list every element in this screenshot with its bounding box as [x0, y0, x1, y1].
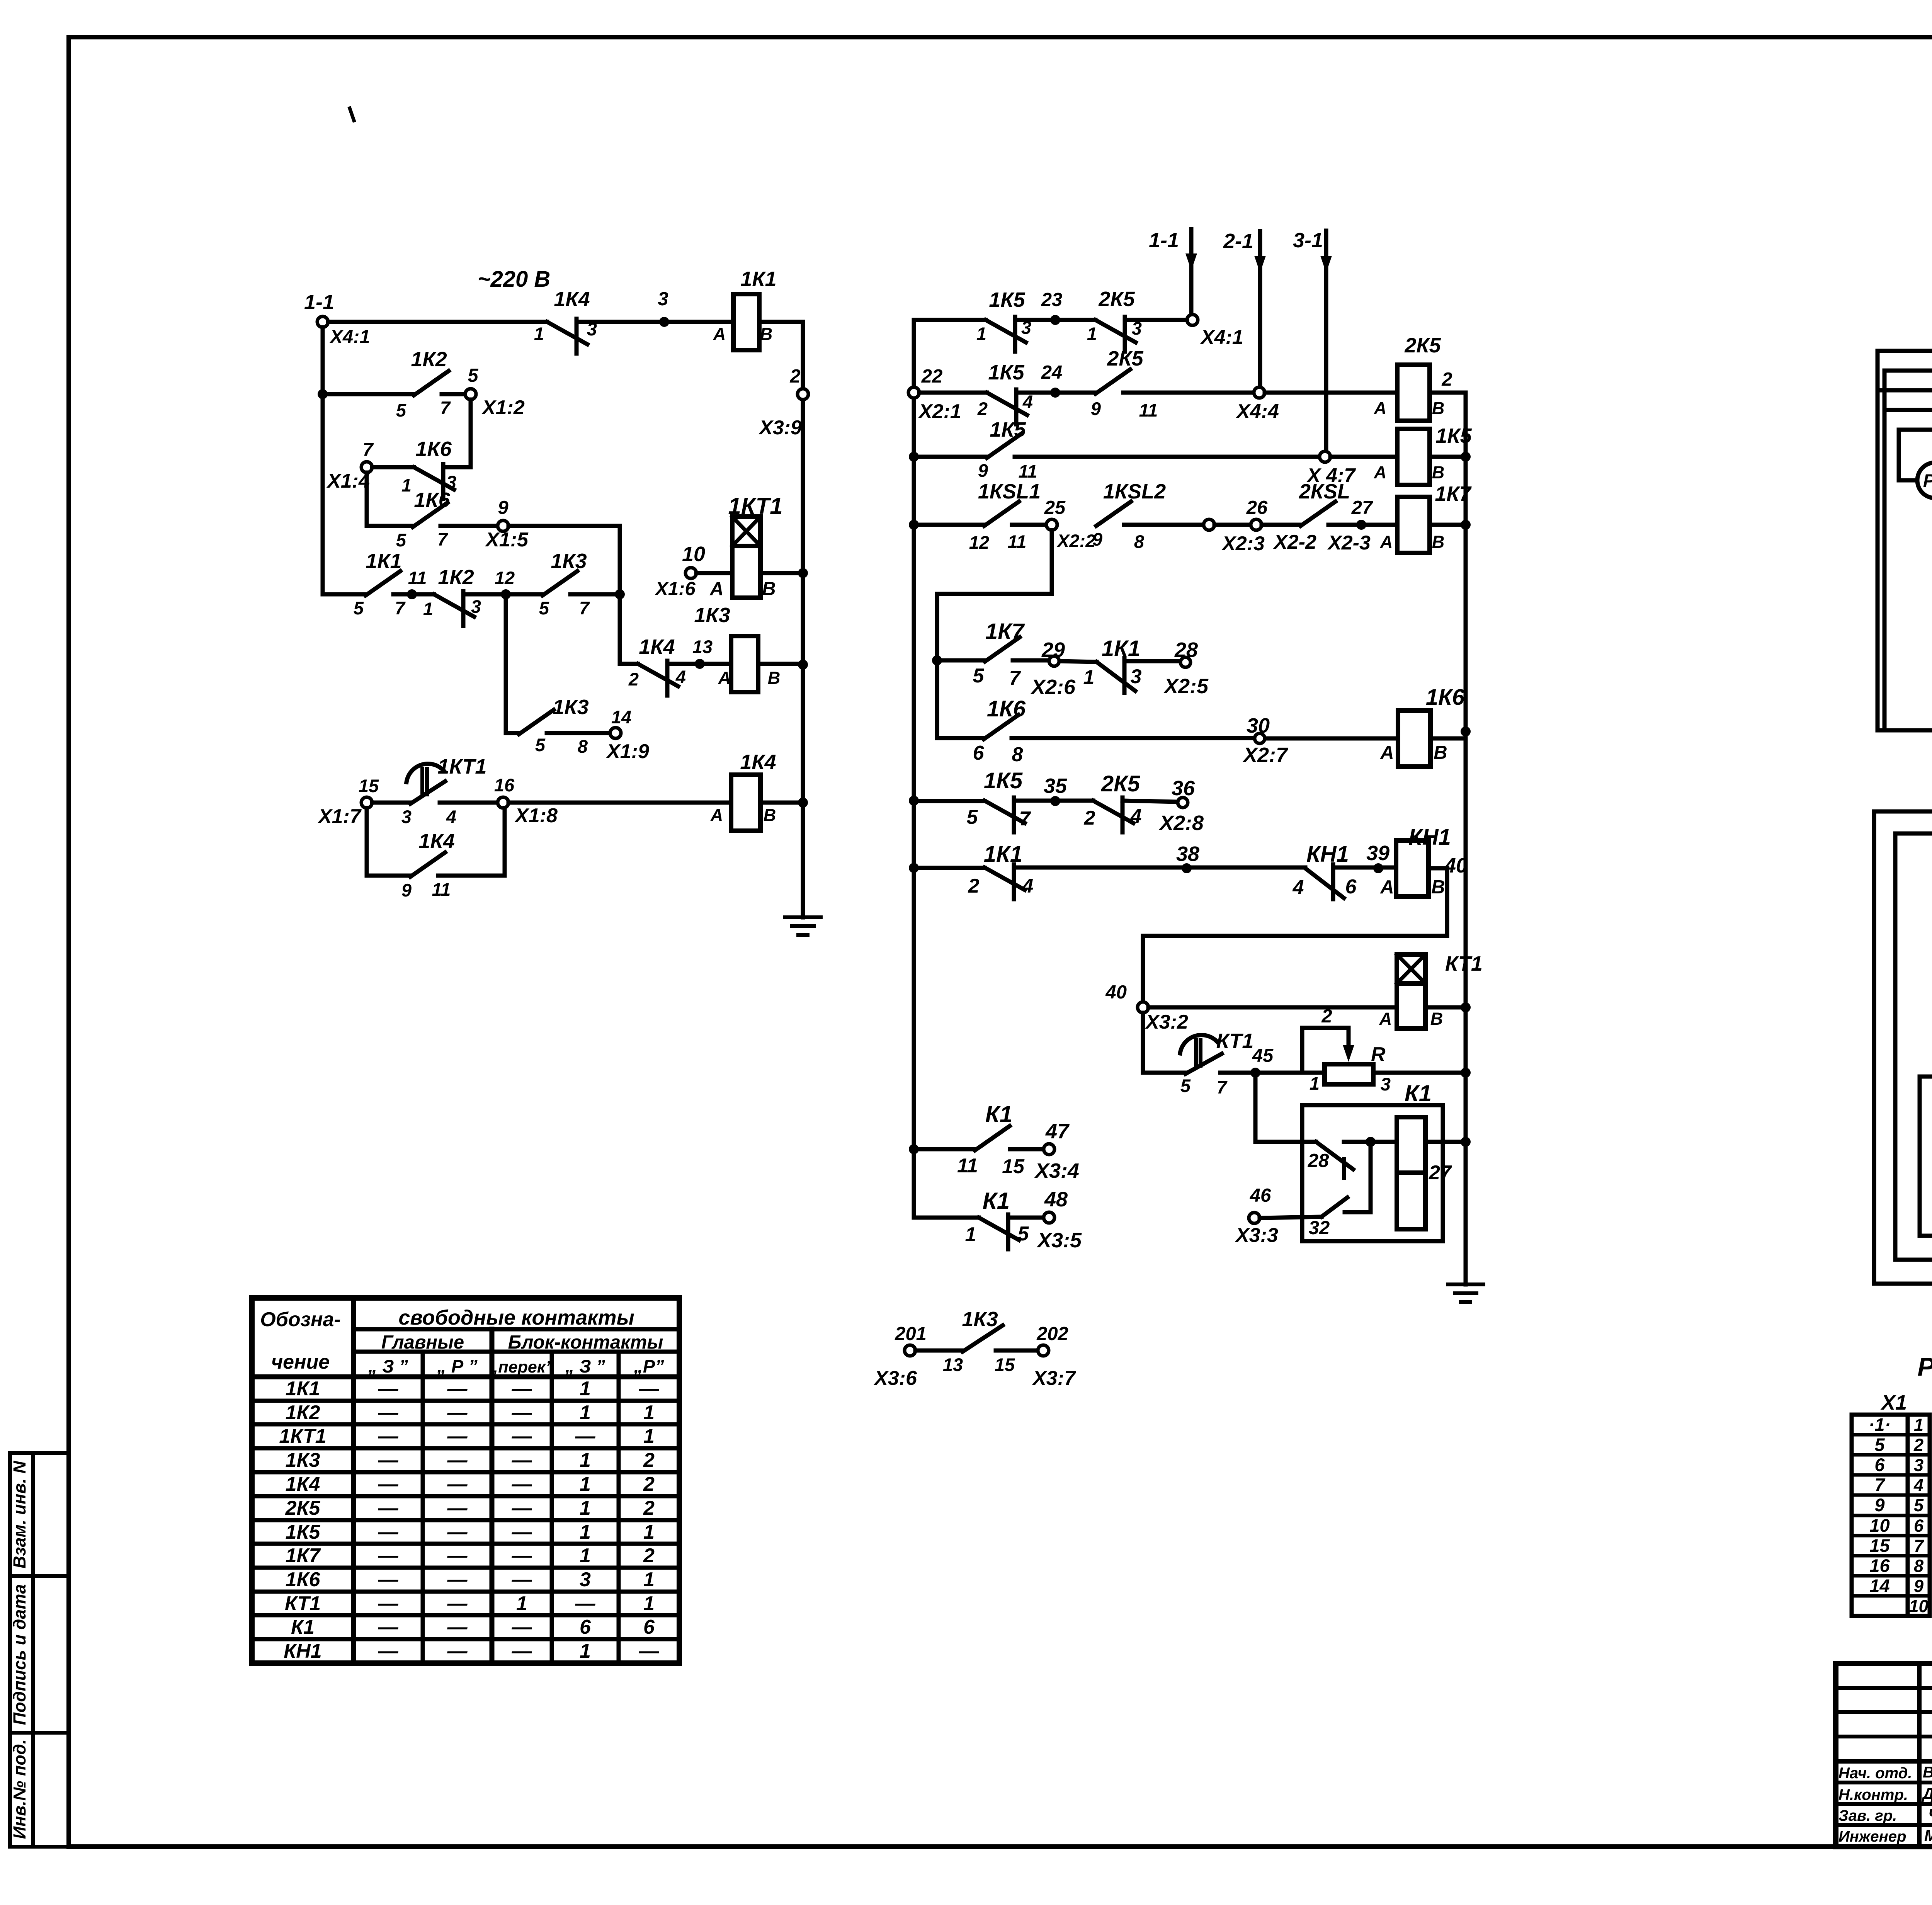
wire X1:5 to row5 corner	[509, 526, 620, 594]
svg-text:6: 6	[1874, 1454, 1885, 1475]
svg-text:Взам. инв. N: Взам. инв. N	[10, 1460, 29, 1568]
svg-text:А: А	[1380, 532, 1393, 552]
wire coil 1K5 to right bus	[1430, 455, 1466, 459]
svg-text:1: 1	[1087, 323, 1097, 344]
svg-text:1: 1	[643, 1521, 655, 1543]
svg-text:2-1: 2-1	[1223, 230, 1253, 253]
contact K1 pin 32	[1260, 1197, 1347, 1238]
svg-text:Инженер: Инженер	[1838, 1828, 1906, 1845]
contact K1 pins 1-5	[965, 1188, 1029, 1249]
svg-text:1К6: 1К6	[987, 696, 1026, 721]
svg-text:38: 38	[1176, 842, 1199, 866]
svg-text:7: 7	[1874, 1475, 1885, 1495]
ground left ladder	[785, 917, 821, 935]
svg-text:X4:4: X4:4	[1235, 400, 1279, 423]
contact 1K6 pins 5-7	[396, 488, 451, 550]
svg-text:28: 28	[1308, 1150, 1329, 1171]
svg-text:—: —	[447, 1592, 468, 1615]
svg-text:В: В	[1430, 1009, 1443, 1029]
svg-text:202: 202	[1036, 1323, 1068, 1344]
svg-text:X2:3: X2:3	[1221, 532, 1265, 555]
svg-text:—: —	[447, 1402, 468, 1424]
terminal X1:9 node 14	[605, 707, 649, 763]
wire row2 left	[323, 392, 414, 396]
svg-text:1: 1	[976, 323, 986, 344]
svg-text:11: 11	[1008, 531, 1027, 552]
wire to node 13	[667, 636, 731, 669]
svg-text:1К5: 1К5	[286, 1521, 321, 1543]
svg-text:14: 14	[1869, 1575, 1889, 1596]
wire node 12 down to row 1K3 5-8	[506, 600, 519, 733]
svg-text:4: 4	[446, 806, 456, 827]
svg-text:К1: К1	[985, 1101, 1012, 1127]
svg-text:X1:4: X1:4	[326, 470, 370, 492]
svg-text:2: 2	[643, 1497, 655, 1519]
stray pen mark	[350, 108, 354, 121]
svg-text:X2-2: X2-2	[1273, 531, 1316, 553]
svg-text:„перек”: „перек”	[490, 1358, 554, 1376]
svg-text:1К6: 1К6	[415, 437, 452, 461]
svg-text:7: 7	[437, 529, 448, 549]
svg-text:1К5: 1К5	[989, 288, 1025, 311]
svg-text:X3:6: X3:6	[873, 1367, 917, 1390]
svg-text:6: 6	[580, 1616, 591, 1638]
svg-text:1К5: 1К5	[1435, 424, 1472, 447]
svg-text:5: 5	[967, 806, 978, 828]
svg-text:X3:2: X3:2	[1145, 1011, 1188, 1033]
svg-text:1К3: 1К3	[286, 1449, 320, 1471]
svg-text:Обозна-: Обозна-	[260, 1308, 341, 1331]
svg-text:1КSL2: 1КSL2	[1103, 480, 1166, 503]
wire X1:8 to coil 1K4	[509, 801, 731, 805]
svg-text:1К3: 1К3	[553, 696, 588, 719]
svg-text:6: 6	[643, 1616, 655, 1638]
terminal X3:7 node 202	[1032, 1323, 1076, 1390]
svg-text:10: 10	[1869, 1515, 1889, 1536]
svg-text:X2:2: X2:2	[1056, 531, 1095, 551]
svg-text:8: 8	[1012, 743, 1023, 766]
right bus of middle ladder	[1461, 393, 1471, 1284]
wire row5 right	[570, 589, 625, 664]
node 12	[463, 568, 543, 599]
coil KT1 time relay	[1379, 952, 1483, 1029]
svg-text:2К5: 2К5	[285, 1497, 321, 1519]
svg-text:8: 8	[1134, 531, 1145, 552]
svg-text:22: 22	[921, 366, 943, 387]
svg-text:36: 36	[1172, 777, 1195, 800]
svg-text:X1:5: X1:5	[485, 529, 529, 551]
contact 1K2 pins 5-7	[396, 348, 451, 420]
svg-text:Инв.№ под.: Инв.№ под.	[10, 1739, 29, 1839]
svg-text:—: —	[378, 1402, 399, 1424]
svg-text:3: 3	[1131, 665, 1142, 688]
svg-text:Блок-контакты: Блок-контакты	[508, 1332, 663, 1353]
contact 1K1 pins 5-7	[323, 549, 406, 618]
svg-text:5: 5	[539, 598, 549, 618]
svg-text:—: —	[378, 1473, 399, 1495]
contact 1K3 pins 5-7	[539, 549, 590, 618]
wire row3 middle	[914, 455, 987, 459]
svg-text:1К7: 1К7	[286, 1544, 321, 1567]
terminal X3:9 node 2	[758, 366, 808, 439]
svg-text:КТ1: КТ1	[1216, 1029, 1254, 1053]
svg-text:16: 16	[494, 775, 515, 795]
svg-text:3: 3	[580, 1568, 591, 1591]
wire to node 39	[1333, 842, 1396, 873]
coil 1K6	[1380, 685, 1465, 767]
svg-text:39: 39	[1366, 842, 1389, 865]
svg-text:11: 11	[1019, 461, 1037, 481]
contact KT1 pins 5-7 time delay	[1180, 1029, 1253, 1097]
wire 52 vertical	[1918, 1077, 1922, 1236]
svg-text:1: 1	[580, 1378, 591, 1400]
wire coil 1K3 to right bus	[758, 662, 803, 666]
svg-text:24: 24	[1041, 362, 1063, 383]
svg-text:X1:8: X1:8	[514, 805, 558, 827]
contact 1K2 pins 1-3	[423, 566, 481, 626]
coil KH1	[1380, 825, 1468, 898]
svg-text:А: А	[1380, 742, 1394, 763]
wire row4 middle	[914, 523, 984, 527]
svg-text:1К1: 1К1	[984, 842, 1022, 867]
svg-text:КТ1: КТ1	[1445, 952, 1483, 975]
svg-text:1К4: 1К4	[740, 750, 776, 774]
terminal X2:8 node 36	[1158, 777, 1204, 835]
svg-text:3: 3	[401, 806, 412, 827]
svg-text:5: 5	[535, 735, 546, 755]
wire row 1KT1 left	[372, 801, 410, 805]
svg-text:—: —	[378, 1378, 399, 1400]
contact 1K3 pins 5-8	[519, 696, 589, 757]
wire 53 to X1 pin1	[1878, 329, 1932, 351]
terminal X4:1 middle	[1187, 315, 1243, 349]
wire 51 vertical	[1893, 833, 1898, 1260]
svg-text:А: А	[713, 324, 726, 344]
svg-text:2КSL: 2КSL	[1299, 480, 1350, 503]
svg-text:2: 2	[643, 1473, 655, 1495]
svg-text:26: 26	[1246, 497, 1268, 518]
svg-text:1: 1	[580, 1473, 591, 1495]
svg-text:2: 2	[968, 875, 980, 897]
svg-text:—: —	[512, 1497, 532, 1519]
svg-text:—: —	[378, 1521, 399, 1543]
svg-text:45: 45	[1252, 1045, 1274, 1066]
coil 2K5	[1374, 334, 1445, 421]
contact 2K5 pins 1-3	[1087, 287, 1142, 352]
wire 51 to 1KSL pin2	[1895, 808, 1932, 833]
svg-text:1: 1	[516, 1592, 527, 1615]
svg-text:—: —	[512, 1616, 532, 1638]
wire row4 left	[367, 524, 413, 528]
svg-text:2: 2	[977, 398, 988, 419]
wire to node 3	[577, 289, 733, 327]
wire to terminal X1:8	[440, 801, 498, 805]
svg-text:9: 9	[1874, 1495, 1884, 1515]
svg-text:—: —	[512, 1521, 532, 1543]
svg-text:35: 35	[1044, 774, 1067, 798]
svg-text:5: 5	[354, 598, 364, 618]
svg-text:X3:5: X3:5	[1036, 1229, 1082, 1252]
wire X3:2 down to contact KT1	[1143, 1013, 1185, 1073]
svg-text:чение: чение	[271, 1351, 330, 1373]
svg-text:—: —	[512, 1425, 532, 1447]
wire loop X2:2 down to row5	[937, 530, 1052, 660]
svg-text:X2:5: X2:5	[1163, 675, 1209, 698]
svg-text:47: 47	[1045, 1120, 1070, 1143]
wire K1 row to coil	[1344, 1137, 1397, 1147]
svg-text:1КSL1: 1КSL1	[978, 480, 1041, 503]
svg-text:1К4: 1К4	[418, 830, 454, 853]
svg-text:6: 6	[1345, 876, 1357, 898]
svg-text:7: 7	[1914, 1536, 1924, 1556]
svg-text:X2:8: X2:8	[1158, 811, 1204, 835]
svg-text:1КТ1: 1КТ1	[279, 1425, 326, 1447]
left bus of left ladder	[318, 327, 328, 594]
svg-text:28: 28	[1174, 638, 1198, 662]
svg-text:X4:1: X4:1	[1200, 326, 1243, 349]
svg-text:—: —	[639, 1378, 660, 1400]
coil K1 latching	[1397, 1117, 1452, 1229]
svg-text:9: 9	[1914, 1576, 1923, 1596]
svg-text:„ З ”: „ З ”	[565, 1356, 605, 1376]
terminal X2-2 node 26	[1246, 497, 1316, 553]
wire to terminal X1:2	[442, 392, 465, 396]
svg-text:В: В	[1432, 532, 1445, 552]
svg-text:—: —	[378, 1449, 399, 1471]
svg-text:Вишневский: Вишневский	[1923, 1763, 1932, 1781]
svg-text:X2-3: X2-3	[1327, 532, 1371, 554]
svg-text:7: 7	[1217, 1077, 1228, 1097]
wire row5 middle	[932, 655, 985, 665]
wire to terminal X2:6	[1013, 658, 1049, 663]
feeder 3-1	[1293, 229, 1332, 457]
svg-text:X1: X1	[1880, 1391, 1907, 1414]
contact 1K4 pins 9-11	[401, 830, 455, 900]
svg-text:2: 2	[643, 1449, 655, 1471]
svg-text:13: 13	[692, 636, 713, 657]
svg-text:1: 1	[534, 323, 544, 344]
svg-text:1: 1	[580, 1402, 591, 1424]
free contacts table	[252, 1298, 679, 1663]
svg-text:КН1: КН1	[1306, 842, 1349, 867]
contact 1K4 pins 2-4	[628, 635, 686, 696]
svg-text:X1:9: X1:9	[605, 740, 649, 763]
svg-text:11: 11	[957, 1155, 978, 1177]
svg-text:2: 2	[628, 669, 639, 689]
svg-text:5: 5	[1874, 1434, 1885, 1455]
left bus of middle ladder	[909, 320, 919, 1218]
svg-text:29: 29	[1041, 638, 1065, 662]
terminal X2:7 node 30	[1242, 714, 1289, 767]
svg-text:2К5: 2К5	[1404, 334, 1441, 357]
svg-text:—: —	[378, 1425, 399, 1447]
svg-text:В: В	[1434, 742, 1447, 763]
svg-text:1: 1	[643, 1402, 655, 1424]
terminal X4:1 node 1-1	[304, 291, 370, 347]
terminal X3:4 node 47	[1034, 1120, 1079, 1182]
contact K1 pins 11-15	[957, 1101, 1025, 1178]
wire to node 27	[1327, 497, 1397, 554]
svg-text:30: 30	[1247, 714, 1270, 737]
svg-text:13: 13	[943, 1354, 963, 1375]
svg-text:2: 2	[789, 366, 800, 387]
svg-text:32: 32	[1309, 1218, 1330, 1238]
contact 1K7 pins 5-7	[973, 619, 1025, 689]
svg-text:10: 10	[1909, 1596, 1928, 1616]
contact 1K6 pins 6-8	[973, 696, 1026, 766]
svg-text:—: —	[378, 1568, 399, 1591]
wire row8 middle	[914, 866, 985, 870]
arrow wire 51	[1895, 1235, 1932, 1265]
left margin stamp boxes	[10, 1453, 69, 1847]
svg-text:7: 7	[579, 598, 590, 618]
caption rails installed on left	[1917, 1352, 1932, 1381]
svg-text:4: 4	[675, 667, 686, 687]
svg-text:1: 1	[1914, 1415, 1923, 1435]
terminal X3:5 node 48	[1036, 1188, 1082, 1252]
svg-text:Магулария: Магулария	[1924, 1827, 1932, 1844]
feeder 2-1	[1223, 230, 1266, 393]
svg-text:2К5: 2К5	[1101, 771, 1140, 796]
svg-text:7: 7	[1019, 808, 1031, 830]
wire node down to contact 32	[1345, 1147, 1371, 1212]
svg-text:В: В	[764, 805, 776, 825]
wire row K1 1-5	[914, 1216, 979, 1220]
svg-text:свободные контакты: свободные контакты	[398, 1306, 634, 1329]
svg-text:3-1: 3-1	[1293, 229, 1323, 252]
svg-text:2К5: 2К5	[1107, 347, 1143, 370]
svg-text:1К1: 1К1	[1102, 636, 1140, 661]
svg-text:—: —	[512, 1473, 532, 1495]
terminal X2:3	[1204, 519, 1265, 555]
svg-text:—: —	[512, 1568, 532, 1591]
svg-text:А: А	[1380, 877, 1394, 898]
svg-text:1К2: 1К2	[286, 1402, 320, 1424]
svg-text:201: 201	[895, 1323, 927, 1344]
wire to X4:1	[1125, 318, 1187, 322]
coil 1K3	[694, 604, 780, 692]
svg-text:1: 1	[580, 1497, 591, 1519]
wire row3 to corner	[443, 465, 471, 469]
svg-text:„Р”: „Р”	[633, 1356, 664, 1376]
wire 201 to contact 1K3	[915, 1349, 963, 1353]
wire X2:6 to contact 1K1	[1060, 661, 1097, 662]
svg-text:1: 1	[643, 1592, 655, 1615]
svg-text:А: А	[1374, 398, 1387, 418]
svg-text:2: 2	[643, 1544, 655, 1567]
svg-text:2: 2	[1084, 807, 1095, 829]
wire coil KH1 down to X3:2	[1143, 868, 1447, 1002]
svg-text:5: 5	[396, 400, 406, 420]
svg-text:1: 1	[580, 1640, 591, 1662]
wire X2:7 to coil 1K6	[1265, 736, 1398, 741]
node 11	[393, 568, 434, 599]
terminal X3:2 node 40	[1105, 982, 1188, 1033]
svg-text:1КТ1: 1КТ1	[438, 755, 487, 778]
svg-text:—: —	[447, 1521, 468, 1543]
svg-text:5: 5	[1180, 1075, 1191, 1096]
contact 1K6 pins 1-3	[401, 437, 456, 499]
svg-text:Главные: Главные	[381, 1332, 464, 1353]
terminal X1:5 node 9	[485, 497, 529, 551]
svg-text:1К2: 1К2	[411, 348, 447, 371]
contact 1K5 pins 1-3	[976, 288, 1031, 352]
svg-text:1: 1	[580, 1521, 591, 1543]
svg-text:1К6: 1К6	[1426, 685, 1465, 710]
title block	[1836, 1663, 1932, 1847]
connector table X1	[1852, 1391, 1930, 1616]
svg-text:1: 1	[965, 1223, 976, 1246]
resistor R	[1302, 1006, 1391, 1094]
svg-text:—: —	[512, 1402, 532, 1424]
svg-text:—: —	[447, 1378, 468, 1400]
contact 1KT1 pins 3-4 time delay	[401, 755, 487, 827]
wire coil 1K7 to right bus	[1430, 523, 1466, 527]
wire to contact 1K4 2-4	[620, 662, 638, 666]
right bus of left ladder	[798, 322, 808, 917]
svg-text:7: 7	[1009, 667, 1021, 689]
svg-text:9: 9	[401, 880, 412, 900]
svg-text:КН1: КН1	[1408, 825, 1451, 850]
wire to node 35	[1014, 774, 1093, 806]
terminal X1:8 node 16	[494, 775, 558, 827]
svg-text:1К3: 1К3	[551, 549, 587, 573]
terminal X2:2 node 25	[1044, 497, 1096, 551]
svg-text:40: 40	[1105, 982, 1127, 1003]
svg-text:—: —	[512, 1544, 532, 1567]
wire row7 middle	[914, 799, 985, 803]
svg-text:Рейки, устанавливаемые слева: Рейки, устанавливаемые слева	[1917, 1352, 1932, 1381]
terminal X2:6 node 29	[1030, 638, 1076, 699]
svg-text:—: —	[512, 1640, 532, 1662]
terminal X2:5 node 28	[1163, 638, 1209, 698]
svg-text:46: 46	[1250, 1185, 1271, 1206]
svg-text:Нач. отд.: Нач. отд.	[1838, 1765, 1912, 1782]
wire 50 to 1KSL pin1	[1874, 786, 1932, 811]
wire branch 1K4 9-11	[367, 808, 410, 876]
svg-text:1К1: 1К1	[740, 267, 776, 291]
wire to terminal X2:2	[1012, 523, 1046, 527]
svg-text:X3:4: X3:4	[1034, 1159, 1079, 1182]
svg-text:—: —	[575, 1425, 596, 1447]
contact 1KSL2 pins 9-8	[1092, 480, 1166, 552]
arrow wire 50	[1874, 1259, 1932, 1289]
svg-text:В: В	[760, 324, 773, 344]
svg-text:—: —	[447, 1544, 468, 1567]
svg-text:4: 4	[1913, 1475, 1923, 1495]
wire to node 45	[1220, 1045, 1325, 1078]
contact 2K5 pins 2-4	[1084, 771, 1142, 832]
svg-text:—: —	[447, 1568, 468, 1591]
svg-text:1КТ1: 1КТ1	[728, 493, 782, 519]
wire to terminal X2:3	[1124, 523, 1204, 527]
svg-text:7: 7	[395, 598, 406, 618]
wire row3 to terminal X4:7	[1015, 455, 1320, 459]
svg-text:1: 1	[643, 1568, 655, 1591]
svg-text:В: В	[768, 668, 781, 688]
svg-text:5: 5	[1914, 1495, 1924, 1515]
wire 52 to 1KSL pin13	[1920, 1051, 1932, 1077]
terminal X3:6 node 201	[873, 1323, 927, 1390]
svg-text:~220 В: ~220 В	[478, 267, 551, 292]
svg-text:16: 16	[1869, 1555, 1890, 1576]
svg-text:9: 9	[978, 460, 988, 481]
svg-text:1К5: 1К5	[990, 418, 1026, 441]
wire to terminal X3:7	[996, 1349, 1038, 1353]
svg-text:2: 2	[1441, 369, 1452, 390]
svg-text:1-1: 1-1	[304, 291, 334, 314]
svg-text:9: 9	[1091, 398, 1101, 419]
